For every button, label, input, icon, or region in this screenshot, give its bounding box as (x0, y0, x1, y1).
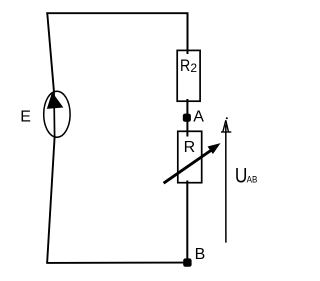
wire right top (187, 13, 189, 55)
source E arrow head (47, 93, 62, 108)
wire bottom (46, 262, 187, 264)
wire R to node B (186, 181, 188, 260)
wire R2 to node A (186, 99, 188, 115)
U_AB arrow tip dot (226, 117, 228, 119)
svg-text:R: R (180, 56, 190, 75)
svg-text:2: 2 (190, 61, 197, 75)
U_AB arrow crossbar (221, 131, 231, 133)
svg-text:U: U (235, 165, 248, 188)
svg-text:AB: AB (247, 175, 258, 186)
wire left upper (47, 13, 54, 93)
svg-text:E: E (20, 108, 31, 125)
arrow over R (head) (208, 144, 219, 154)
node A (183, 114, 191, 122)
svg-text:A: A (193, 109, 204, 126)
U_AB arrow open head (223, 120, 229, 131)
wire left lower (47, 137, 55, 263)
svg-text:R: R (184, 139, 196, 156)
U_AB arrow shaft (225, 125, 227, 243)
svg-text:B: B (195, 246, 206, 263)
wire through source (53, 92, 56, 137)
arrow over R (wiper line) (164, 149, 213, 183)
resistor R box (variable) (178, 131, 202, 182)
voltage source E ellipse (44, 91, 70, 137)
wire node A to R (186, 121, 188, 137)
wire top (46, 12, 188, 14)
resistor R2 box (177, 50, 200, 101)
node B (183, 258, 191, 266)
